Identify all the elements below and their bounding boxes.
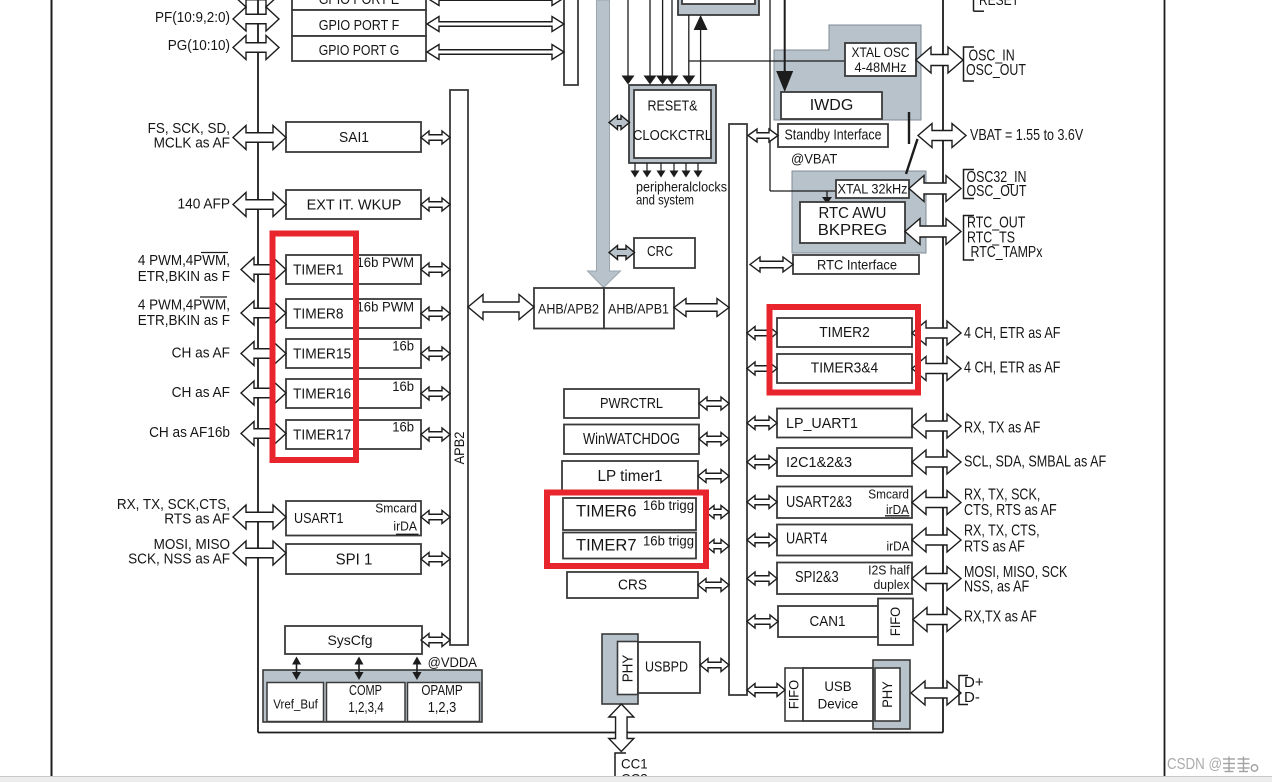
svg-text:OSC_OUT: OSC_OUT	[967, 183, 1027, 200]
svg-text:Smcard: Smcard	[375, 502, 417, 516]
svg-text:XTAL OSC: XTAL OSC	[852, 45, 910, 60]
svg-text:RESET&: RESET&	[648, 99, 698, 115]
svg-text:1,2,3,4: 1,2,3,4	[348, 700, 383, 716]
svg-text:USART1: USART1	[294, 510, 344, 527]
svg-text:CLOCKCTRL: CLOCKCTRL	[633, 128, 712, 144]
svg-text:USB: USB	[824, 678, 851, 694]
svg-text:D-: D-	[964, 689, 980, 706]
svg-text:USART2&3: USART2&3	[786, 494, 852, 511]
svg-text:PWRCTRL: PWRCTRL	[600, 395, 663, 412]
svg-text:LP_UART1: LP_UART1	[786, 415, 858, 432]
svg-text:140 AFP: 140 AFP	[178, 197, 231, 213]
svg-text:IWDG: IWDG	[810, 97, 854, 114]
svg-text:4 PWM,4PWM,: 4 PWM,4PWM,	[138, 253, 230, 269]
svg-text:CC1: CC1	[621, 756, 648, 772]
svg-text:RX, TX, SCK,: RX, TX, SCK,	[964, 487, 1040, 504]
svg-text:16b PWM: 16b PWM	[357, 300, 415, 315]
svg-text:SPI 1: SPI 1	[336, 552, 373, 569]
svg-text:OSC_OUT: OSC_OUT	[966, 62, 1026, 79]
svg-text:TIMER17: TIMER17	[293, 428, 351, 444]
svg-text:TIMER8: TIMER8	[293, 307, 344, 323]
svg-text:MCLK as AF: MCLK as AF	[154, 136, 231, 152]
svg-text:PF(10:9,2:0): PF(10:9,2:0)	[155, 10, 230, 26]
svg-text:I2S half: I2S half	[868, 563, 910, 578]
svg-text:RTS as AF: RTS as AF	[164, 512, 230, 528]
svg-text:CTS, RTS as AF: CTS, RTS as AF	[964, 502, 1057, 519]
svg-text:RX, TX, CTS,: RX, TX, CTS,	[964, 523, 1040, 540]
svg-text:ETR,BKIN as F: ETR,BKIN as F	[138, 313, 230, 329]
svg-text:FIFO: FIFO	[888, 607, 903, 636]
svg-text:irDA: irDA	[887, 539, 910, 554]
svg-text:SCK, NSS as AF: SCK, NSS as AF	[128, 552, 230, 568]
svg-text:PHY: PHY	[880, 681, 895, 707]
svg-text:Smcard: Smcard	[868, 487, 909, 502]
svg-text:CSDN @: CSDN @	[1167, 756, 1222, 773]
svg-text:TIMER3&4: TIMER3&4	[811, 361, 878, 377]
svg-text:16b: 16b	[392, 339, 414, 354]
svg-text:RTC AWU: RTC AWU	[819, 205, 887, 222]
svg-text:COMP: COMP	[349, 683, 382, 699]
svg-text:duplex: duplex	[874, 577, 910, 592]
svg-text:and system: and system	[636, 192, 694, 208]
svg-text:I2C1&2&3: I2C1&2&3	[786, 454, 852, 471]
svg-text:16b: 16b	[392, 420, 414, 435]
svg-text:CRC: CRC	[647, 243, 673, 260]
svg-text:PG(10:10): PG(10:10)	[168, 38, 230, 54]
svg-text:SCL, SDA, SMBAL as AF: SCL, SDA, SMBAL as AF	[964, 454, 1106, 471]
svg-text:RX,TX as AF: RX,TX as AF	[964, 609, 1037, 626]
svg-text:TIMER1: TIMER1	[293, 263, 344, 279]
svg-text:XTAL 32kHz: XTAL 32kHz	[838, 182, 908, 197]
svg-text:TIMER6: TIMER6	[576, 503, 637, 521]
svg-text:GPIO PORT G: GPIO PORT G	[319, 43, 400, 59]
svg-text:FIFO: FIFO	[787, 680, 802, 709]
svg-text:GPIO PORT F: GPIO PORT F	[319, 18, 400, 34]
svg-text:CAN1: CAN1	[810, 613, 846, 630]
svg-text:RTC Interface: RTC Interface	[817, 257, 897, 273]
svg-text:16b PWM: 16b PWM	[357, 255, 415, 270]
svg-text:APB2: APB2	[452, 432, 467, 465]
svg-text:SysCfg: SysCfg	[327, 632, 372, 648]
svg-text:TIMER2: TIMER2	[819, 325, 870, 341]
svg-text:RX, TX as AF: RX, TX as AF	[964, 420, 1040, 437]
svg-text:BKPREG: BKPREG	[818, 222, 888, 239]
svg-text:RESET: RESET	[979, 0, 1019, 9]
svg-text:SPI2&3: SPI2&3	[795, 569, 839, 586]
svg-text:OPAMP: OPAMP	[421, 683, 462, 699]
svg-text:TIMER7: TIMER7	[576, 537, 637, 555]
svg-text:ETR,BKIN as F: ETR,BKIN as F	[138, 269, 230, 285]
svg-text:LP timer1: LP timer1	[598, 468, 663, 485]
svg-text:WinWATCHDOG: WinWATCHDOG	[583, 431, 680, 448]
svg-text:@VDDA: @VDDA	[428, 654, 478, 670]
svg-text:4 CH, ETR as AF: 4 CH, ETR as AF	[964, 325, 1061, 342]
svg-text:16b trigg: 16b trigg	[643, 534, 694, 549]
svg-text:CH as AF: CH as AF	[172, 346, 231, 362]
svg-text:TIMER15: TIMER15	[293, 347, 351, 363]
svg-text:SAI1: SAI1	[339, 130, 369, 146]
svg-text:Standby Interface: Standby Interface	[785, 128, 882, 144]
svg-text:AHB/APB2: AHB/APB2	[538, 301, 599, 317]
svg-text:RTC_TAMPx: RTC_TAMPx	[971, 244, 1043, 261]
svg-text:4 PWM,4PWM,: 4 PWM,4PWM,	[138, 298, 230, 314]
svg-text:irDA: irDA	[886, 502, 909, 517]
svg-text:1,2,3: 1,2,3	[428, 700, 457, 716]
svg-text:RTS as AF: RTS as AF	[964, 539, 1025, 556]
svg-text:CH as AF16b: CH as AF16b	[149, 425, 230, 441]
svg-text:UART4: UART4	[786, 531, 828, 548]
svg-text:Vref_Buf: Vref_Buf	[273, 697, 318, 712]
svg-text:NSS, as AF: NSS, as AF	[964, 579, 1029, 596]
svg-text:4 CH, ETR as AF: 4 CH, ETR as AF	[964, 360, 1061, 377]
svg-text:TIMER16: TIMER16	[293, 387, 351, 403]
svg-text:GPIO PORT E: GPIO PORT E	[319, 0, 400, 8]
svg-text:PHY: PHY	[620, 655, 637, 683]
svg-text:USBPD: USBPD	[645, 660, 688, 676]
svg-text:Device: Device	[818, 696, 859, 712]
svg-text:VBAT = 1.55 to 3.6V: VBAT = 1.55 to 3.6V	[970, 127, 1083, 144]
svg-text:irDA: irDA	[393, 520, 417, 534]
svg-text:EXT IT. WKUP: EXT IT. WKUP	[307, 198, 402, 214]
svg-text:CRS: CRS	[618, 578, 647, 594]
svg-text:16b trigg: 16b trigg	[643, 498, 694, 513]
svg-text:@VBAT: @VBAT	[791, 151, 838, 167]
svg-text:CH as AF: CH as AF	[172, 385, 231, 401]
svg-text:4-48MHz: 4-48MHz	[855, 60, 907, 75]
svg-text:AHB/APB1: AHB/APB1	[608, 301, 669, 317]
svg-text:16b: 16b	[392, 379, 414, 394]
